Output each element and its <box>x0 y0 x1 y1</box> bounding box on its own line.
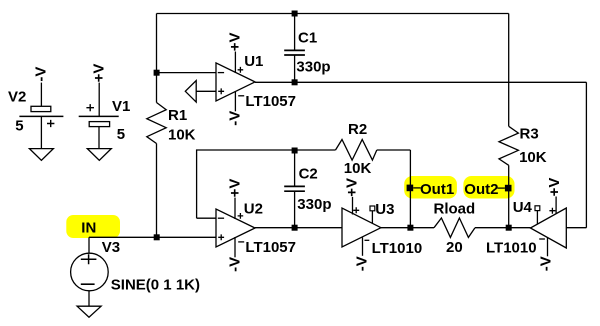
U3 plus power marker <box>353 207 359 213</box>
svg-text:330p: 330p <box>296 58 330 75</box>
U1 minus power marker <box>238 95 244 97</box>
wire Rload right <box>475 227 530 229</box>
wire U2 inverting input <box>197 217 216 219</box>
buffer U4 triangle <box>530 208 566 248</box>
U1 plus input marker <box>218 88 224 94</box>
battery V1 top lead <box>98 83 100 117</box>
svg-text:Out2: Out2 <box>464 181 498 198</box>
svg-text:Out1: Out1 <box>420 181 454 198</box>
svg-text:C1: C1 <box>298 29 317 46</box>
svg-text:LT1057: LT1057 <box>245 239 296 256</box>
svg-text:R2: R2 <box>348 121 367 138</box>
svg-text:LT1010: LT1010 <box>372 240 423 257</box>
V3 bottom lead <box>88 291 90 307</box>
U4 top power pin <box>555 197 557 215</box>
ground V3 <box>77 306 101 317</box>
svg-text:330p: 330p <box>297 196 331 213</box>
U1 top power pin <box>234 52 236 74</box>
op-amp U1 triangle <box>216 63 255 101</box>
wire left vertical upper <box>156 14 158 103</box>
battery V2 long plate <box>19 115 63 117</box>
svg-text:10K: 10K <box>344 160 372 177</box>
wire U4 input <box>566 227 586 229</box>
battery V2 plate rect <box>31 106 51 111</box>
ground V2 <box>29 149 53 161</box>
battery V2 plus marker <box>47 120 54 127</box>
U1 minus input marker <box>218 72 224 74</box>
resistor R1 <box>147 103 166 144</box>
svg-text:20: 20 <box>446 239 463 256</box>
wire left vertical lower <box>156 144 158 238</box>
capacitor C1 bottom lead <box>294 55 296 82</box>
buffer U3 triangle <box>342 208 381 247</box>
battery V1 plus marker <box>86 104 94 111</box>
junction C1 top <box>292 11 298 17</box>
svg-text:Rload: Rload <box>434 200 476 217</box>
capacitor C2 top lead <box>294 150 296 186</box>
U2 plus input marker <box>218 234 224 240</box>
svg-text:+V: +V <box>90 64 107 83</box>
flag tick Out1 <box>413 187 421 189</box>
battery V1 long plate <box>79 115 119 117</box>
wire top feedback <box>157 13 509 15</box>
voltage source V3 circle <box>71 253 109 291</box>
wire U3 output <box>381 227 434 229</box>
svg-text:5: 5 <box>15 117 23 134</box>
junction R3 bottom <box>506 225 512 231</box>
svg-text:-V: -V <box>226 111 243 126</box>
svg-text:+V: +V <box>546 178 563 197</box>
capacitor C1 plates <box>284 50 305 55</box>
wire U2 output to U3 input <box>255 227 342 229</box>
wire feedback2 right <box>377 149 411 151</box>
node Out1 highlight box <box>404 176 457 199</box>
svg-text:R3: R3 <box>520 125 539 142</box>
U2 minus power marker <box>238 241 244 243</box>
resistor R2 <box>336 140 377 161</box>
resistor R3 <box>499 126 518 165</box>
U4 minus power marker <box>539 238 545 240</box>
junction C2 bottom <box>292 225 298 231</box>
svg-text:U4: U4 <box>513 199 533 216</box>
anchor Out2 <box>505 185 512 192</box>
svg-text:U1: U1 <box>244 53 263 70</box>
wire feedback2 left <box>197 150 336 218</box>
U3 bias pin <box>370 206 375 211</box>
junction U3 output <box>407 225 413 231</box>
svg-text:C2: C2 <box>299 166 318 183</box>
svg-text:10K: 10K <box>168 127 196 144</box>
U2 top power pin <box>234 198 236 219</box>
svg-text:+V: +V <box>226 33 243 52</box>
svg-text:U2: U2 <box>244 200 263 217</box>
battery V1 bottom lead <box>98 127 100 149</box>
wire U1 noninverting input <box>196 90 216 92</box>
U4 bias pin <box>535 206 540 211</box>
svg-text:+V: +V <box>343 178 360 197</box>
capacitor C2 plates <box>284 186 305 191</box>
svg-text:-V: -V <box>537 256 554 271</box>
svg-text:SINE(0 1 1K): SINE(0 1 1K) <box>111 276 200 293</box>
wire U1 output <box>255 81 586 83</box>
svg-text:-V: -V <box>226 257 243 272</box>
node Out2 highlight box <box>463 176 514 199</box>
ground flag at U1 + input <box>185 81 196 103</box>
U1 bottom power pin <box>234 91 236 111</box>
svg-text:-V: -V <box>353 256 370 271</box>
U3 top power pin <box>352 197 354 215</box>
wire U1 inverting input <box>157 72 217 74</box>
U4 bottom power pin <box>547 238 549 257</box>
svg-text:LT1010: LT1010 <box>486 239 537 256</box>
svg-text:V3: V3 <box>102 239 120 256</box>
resistor R3 top lead <box>508 14 510 127</box>
ground V1 <box>87 149 111 161</box>
svg-text:5: 5 <box>117 126 125 143</box>
flag tick Out2 <box>497 187 505 189</box>
resistor R3 bottom lead <box>508 165 510 227</box>
svg-text:10K: 10K <box>519 149 547 166</box>
U2 bottom power pin <box>234 237 236 257</box>
junction C2 top <box>292 148 298 154</box>
V3 plus marker <box>81 254 97 264</box>
junction C1 bottom <box>292 79 298 85</box>
U2 plus power marker <box>238 213 244 219</box>
V3 minus marker <box>81 283 95 285</box>
wire right vertical <box>585 82 587 227</box>
junction R1 bottom <box>154 234 160 240</box>
battery V2 bottom lead <box>40 116 42 148</box>
U4 plus power marker <box>549 208 555 214</box>
svg-text:+V: +V <box>226 179 243 198</box>
battery V2 top lead <box>40 83 42 107</box>
wire Out1 vertical <box>409 150 411 228</box>
svg-text:R1: R1 <box>168 107 187 124</box>
U1 plus power marker <box>238 67 244 73</box>
wire IN horizontal <box>89 236 216 238</box>
anchor Out1 <box>407 185 414 192</box>
svg-text:V1: V1 <box>112 98 130 115</box>
op-amp U2 triangle <box>216 209 255 247</box>
junction U1 inverting <box>154 70 160 76</box>
node IN highlight box <box>66 215 120 238</box>
capacitor C2 bottom lead <box>294 191 296 228</box>
capacitor C1 top lead <box>294 14 296 51</box>
U3 bottom power pin <box>362 238 364 256</box>
svg-text:U3: U3 <box>375 201 394 218</box>
battery V1 plate rect <box>89 122 109 127</box>
U3 minus power marker <box>365 239 370 241</box>
svg-text:IN: IN <box>81 219 96 236</box>
svg-text:LT1057: LT1057 <box>245 93 296 110</box>
svg-text:-V: -V <box>32 67 49 82</box>
svg-text:V2: V2 <box>8 89 26 106</box>
wire V3 top lead <box>88 237 90 253</box>
U2 minus input marker <box>218 217 224 219</box>
resistor Rload <box>434 218 475 237</box>
